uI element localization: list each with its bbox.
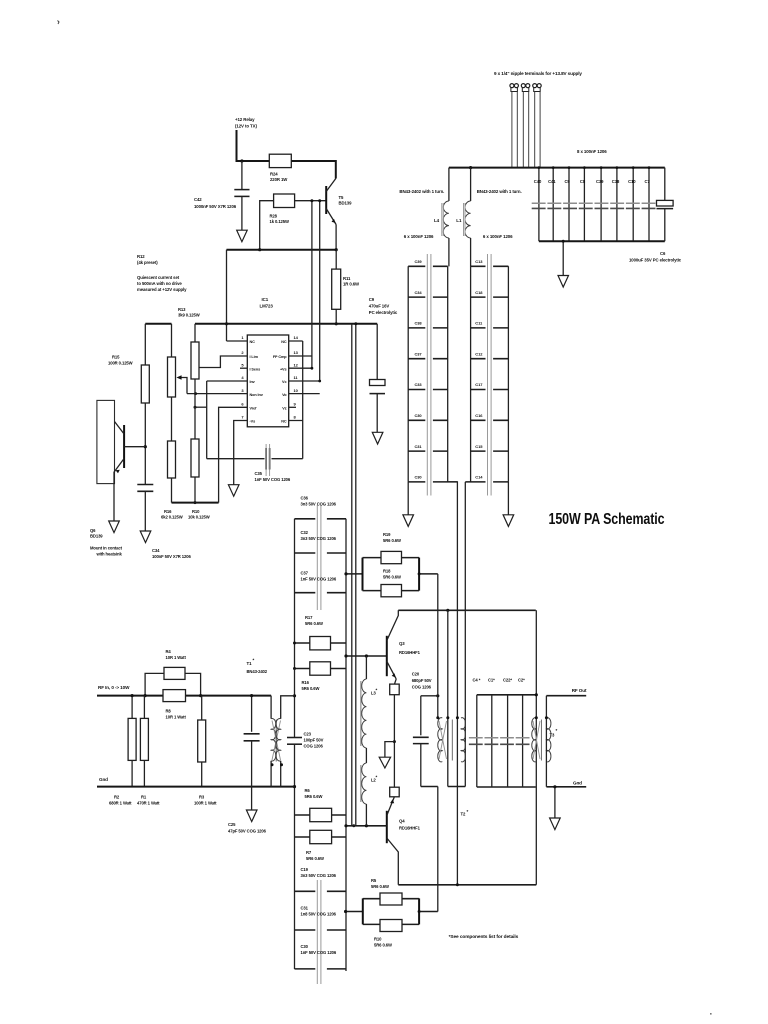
svg-text:C38: C38 bbox=[415, 321, 423, 326]
node R4 right bbox=[199, 694, 202, 697]
wire +12 input bbox=[237, 130, 270, 161]
svg-text:RF Out: RF Out bbox=[572, 688, 587, 693]
capacitor C11 bbox=[471, 321, 509, 328]
svg-text:R5: R5 bbox=[371, 878, 377, 883]
svg-text:BN43-2402: BN43-2402 bbox=[247, 669, 268, 674]
transformer T2 bbox=[436, 574, 468, 817]
svg-text:3: 3 bbox=[241, 388, 244, 393]
svg-text:Q6: Q6 bbox=[90, 528, 96, 533]
pin 14-8 link bbox=[289, 341, 303, 421]
capacitor C40 bbox=[534, 168, 542, 242]
resistor R7 bbox=[295, 830, 347, 861]
svg-text:C4 *: C4 * bbox=[473, 678, 481, 683]
stray dot bottom-right bbox=[710, 1013, 712, 1015]
svg-text:470R 1 Watt: 470R 1 Watt bbox=[137, 801, 160, 806]
capacitor C3A bbox=[408, 290, 448, 297]
resistor R16a bbox=[161, 441, 183, 520]
wire bank bottom rail bbox=[477, 786, 536, 788]
pin 3 wire bbox=[187, 393, 247, 395]
svg-text:5R6 0.6W: 5R6 0.6W bbox=[302, 686, 320, 691]
svg-text:C30: C30 bbox=[415, 413, 423, 418]
wire feedback drop to R5 loop bbox=[437, 787, 439, 912]
svg-text:6: 6 bbox=[241, 402, 244, 407]
svg-text:150W PA Schematic: 150W PA Schematic bbox=[549, 511, 665, 528]
ground C25 bbox=[246, 810, 257, 822]
capacitor C32 bbox=[295, 530, 347, 553]
svg-text:1000uF 35V PC electrolytic: 1000uF 35V PC electrolytic bbox=[629, 258, 682, 263]
svg-text:T5: T5 bbox=[339, 195, 345, 200]
transistor Q4 bbox=[387, 797, 421, 885]
node pin13-R28 bbox=[310, 199, 313, 202]
wire bank top rail bbox=[477, 694, 536, 696]
capacitor C16 bbox=[471, 413, 509, 420]
wire collector bottom bus bbox=[398, 884, 536, 886]
wire bias feed B bbox=[351, 324, 353, 826]
capacitor C14 bbox=[465, 475, 508, 482]
op-amp IC1 LM723 bbox=[247, 297, 288, 427]
svg-text:R17: R17 bbox=[305, 615, 313, 620]
resistor R16b bbox=[295, 662, 347, 691]
wire 12V bus bbox=[145, 323, 171, 325]
svg-text:680R 1 Watt: 680R 1 Watt bbox=[109, 801, 132, 806]
svg-text:5R6 0.6W: 5R6 0.6W bbox=[383, 575, 401, 580]
ladder right rail bbox=[345, 519, 347, 971]
IC1 pin labels inside bbox=[250, 340, 288, 424]
svg-text:IC1: IC1 bbox=[262, 297, 269, 302]
svg-text:C30: C30 bbox=[415, 475, 423, 480]
node C25 tap bbox=[250, 694, 253, 697]
capacitor C37 bbox=[408, 351, 448, 358]
node R11 bus bbox=[335, 322, 338, 325]
SECTION: R5/R10 parallel pair bbox=[344, 898, 419, 924]
svg-text:9 x 1/4" nipple terminals for: 9 x 1/4" nipple terminals for +13.8V sup… bbox=[494, 71, 582, 76]
svg-text:T3: T3 bbox=[550, 733, 556, 738]
svg-text:C23: C23 bbox=[304, 732, 312, 737]
svg-text:1n8 50V COG 1206: 1n8 50V COG 1206 bbox=[301, 912, 337, 917]
svg-text:10: 10 bbox=[294, 388, 299, 393]
svg-text:T1: T1 bbox=[247, 661, 253, 666]
svg-text:5R6 0.6W: 5R6 0.6W bbox=[383, 538, 401, 543]
svg-text:C19: C19 bbox=[301, 867, 309, 872]
pin 7 wire bbox=[234, 421, 248, 485]
inductor L4 bbox=[434, 168, 449, 267]
svg-text:BD139: BD139 bbox=[90, 534, 103, 539]
svg-text:NC: NC bbox=[250, 340, 256, 344]
resistor R17 bbox=[295, 615, 347, 650]
wire gnd out bbox=[546, 786, 586, 788]
svg-text:11: 11 bbox=[294, 375, 299, 380]
svg-text:R18: R18 bbox=[383, 569, 391, 574]
svg-text:5R6 0.6W: 5R6 0.6W bbox=[371, 884, 389, 889]
pin 2 wire bbox=[199, 356, 247, 368]
svg-text:R16: R16 bbox=[302, 680, 310, 685]
svg-text:Q4: Q4 bbox=[399, 819, 405, 824]
wire chain to T2 feed right bbox=[464, 482, 466, 610]
wire R28 left to emitter node bbox=[260, 201, 274, 250]
svg-text:R13: R13 bbox=[178, 307, 186, 312]
capacitor C9 electrolytic bbox=[369, 297, 398, 432]
svg-text:6 x 100nF 1206: 6 x 100nF 1206 bbox=[483, 234, 513, 239]
wire emitter rail bbox=[227, 249, 337, 251]
svg-text:470uF 16V: 470uF 16V bbox=[369, 304, 390, 309]
svg-text:Non Inv: Non Inv bbox=[250, 393, 264, 397]
ground output bbox=[550, 785, 561, 829]
potentiometer R12 bbox=[168, 324, 188, 441]
capacitor C7 bbox=[645, 168, 651, 242]
resistor R10b bbox=[363, 920, 419, 948]
resistor R4 branch bbox=[145, 649, 201, 696]
resistor R11 bbox=[332, 250, 360, 324]
svg-text:100pF 50V: 100pF 50V bbox=[304, 738, 324, 743]
capacitor C12 bbox=[471, 351, 509, 358]
capacitor C9b bbox=[565, 168, 571, 242]
resistor R2 bbox=[109, 696, 136, 806]
pin 12 stub bbox=[289, 367, 312, 369]
wire RF out bbox=[546, 695, 586, 697]
svg-text:5R6 0.6W: 5R6 0.6W bbox=[306, 856, 324, 861]
capacitor C8 bbox=[580, 168, 586, 242]
svg-text:3n3 50V COG 1206: 3n3 50V COG 1206 bbox=[301, 502, 337, 507]
capacitor C31 bbox=[295, 906, 347, 931]
svg-text:1nF 50V COG 1206: 1nF 50V COG 1206 bbox=[301, 950, 337, 955]
svg-text:*: * bbox=[253, 658, 255, 663]
terminal pair J2 bbox=[521, 84, 530, 168]
svg-text:C20: C20 bbox=[412, 672, 420, 677]
svg-text:Mount in contact: Mount in contact bbox=[90, 546, 123, 551]
svg-text:5R6 0.6W: 5R6 0.6W bbox=[374, 943, 392, 948]
svg-text:5R6 0.6W: 5R6 0.6W bbox=[305, 794, 323, 799]
bank plates bbox=[469, 737, 530, 739]
svg-text:8: 8 bbox=[294, 415, 297, 420]
resistor R18 bbox=[363, 569, 420, 597]
right chain right rail bbox=[507, 266, 509, 482]
wire R28 right to T5 base bbox=[295, 200, 327, 202]
svg-text:C12: C12 bbox=[475, 351, 483, 356]
svg-text:R12: R12 bbox=[137, 254, 145, 259]
svg-text:Vc: Vc bbox=[282, 380, 286, 384]
capacitor C2 bbox=[518, 678, 525, 788]
terminal pair J1 bbox=[510, 84, 519, 168]
capacitor C39 bbox=[408, 259, 448, 266]
svg-text:C37: C37 bbox=[415, 351, 423, 356]
svg-text:to 500mA with no drive: to 500mA with no drive bbox=[137, 281, 182, 286]
capacitor C15 bbox=[471, 444, 509, 451]
transformer T1 bbox=[247, 658, 295, 787]
svg-text:C31: C31 bbox=[415, 444, 423, 449]
cap bank plates bbox=[532, 202, 657, 204]
wire R24 to T5 collector bbox=[291, 161, 336, 179]
capacitor C19 bbox=[295, 867, 347, 891]
svg-text:3k9 0.125W: 3k9 0.125W bbox=[178, 313, 200, 318]
svg-text:with heatsink: with heatsink bbox=[96, 552, 123, 557]
wire bottom rail bbox=[539, 240, 665, 242]
svg-text:C34: C34 bbox=[415, 290, 423, 295]
wire Q4 base line bbox=[346, 825, 387, 827]
svg-text:C1*: C1* bbox=[488, 678, 495, 683]
svg-text:10R 1 Watt: 10R 1 Watt bbox=[166, 715, 187, 720]
svg-text:Vref: Vref bbox=[250, 407, 258, 411]
svg-text:2: 2 bbox=[241, 350, 244, 355]
ferrite bead Q3 emitter bbox=[390, 679, 400, 787]
svg-text:1k 0.125W: 1k 0.125W bbox=[270, 219, 290, 224]
capacitor C25 bbox=[228, 696, 267, 834]
svg-text:R24: R24 bbox=[270, 172, 278, 177]
capacitor C18 bbox=[471, 290, 509, 297]
ladder left rail upper bbox=[294, 519, 296, 669]
wire chain to T2 feed left bbox=[448, 482, 458, 610]
svg-text:C39: C39 bbox=[596, 179, 604, 184]
ground supply rail bbox=[558, 240, 569, 287]
svg-text:C13: C13 bbox=[475, 259, 483, 264]
svg-text:*: * bbox=[376, 688, 378, 693]
svg-text:Gnd: Gnd bbox=[573, 781, 582, 786]
transistor Q3 bbox=[387, 610, 421, 679]
svg-text:7: 7 bbox=[241, 415, 244, 420]
wire input line bbox=[97, 695, 271, 697]
svg-text:C9: C9 bbox=[565, 179, 571, 184]
svg-text:T2: T2 bbox=[461, 812, 467, 817]
capacitor C13 bbox=[471, 259, 509, 266]
svg-text:Quiescent current set: Quiescent current set bbox=[137, 275, 180, 280]
ground pin7 bbox=[228, 485, 239, 497]
transistor Q6 thermal bbox=[90, 400, 145, 556]
svg-text:LM723: LM723 bbox=[260, 304, 274, 309]
svg-text:*: * bbox=[467, 809, 469, 814]
wire loop right up to bus bbox=[419, 911, 438, 913]
resistor R15 bbox=[108, 324, 149, 485]
svg-text:R15: R15 bbox=[112, 355, 120, 360]
svg-text:BD139: BD139 bbox=[339, 201, 353, 206]
svg-text:10R 1 Watt: 10R 1 Watt bbox=[166, 655, 187, 660]
pin 4 wire bbox=[207, 380, 248, 382]
capacitor C36 bbox=[295, 496, 347, 519]
svg-text:C10: C10 bbox=[628, 179, 636, 184]
svg-text:R6: R6 bbox=[305, 788, 311, 793]
wire loop right to T2 bbox=[419, 573, 438, 575]
inductor L1 bbox=[456, 168, 470, 267]
svg-text:8 x 100nF 1206: 8 x 100nF 1206 bbox=[577, 149, 607, 154]
svg-text:680pF 50V: 680pF 50V bbox=[412, 678, 432, 683]
ground Q6 bbox=[109, 521, 120, 533]
capacitor C1 bbox=[488, 678, 495, 788]
capacitor C6 electrolytic bbox=[629, 168, 682, 263]
svg-text:1nF 50V COG 1206: 1nF 50V COG 1206 bbox=[255, 477, 291, 482]
node R2 top bbox=[131, 694, 134, 697]
svg-text:COG 1206: COG 1206 bbox=[412, 685, 432, 690]
wire loop left bbox=[346, 573, 363, 575]
svg-text:R8: R8 bbox=[166, 709, 172, 714]
wire loop left lower bbox=[346, 911, 363, 913]
ferrite bead Q4 emitter bbox=[390, 787, 400, 797]
bus junction dots bbox=[538, 166, 541, 169]
left chain left rail bbox=[407, 266, 409, 482]
ground C9 bbox=[372, 432, 383, 444]
capacitor C37 bbox=[295, 571, 347, 593]
capacitor C31b bbox=[408, 444, 448, 451]
wire +13.8V bus bbox=[449, 167, 665, 169]
svg-text:C18: C18 bbox=[475, 290, 483, 295]
svg-text:100nF 50V X7R 1206: 100nF 50V X7R 1206 bbox=[152, 554, 191, 559]
svg-text:FP Cmp: FP Cmp bbox=[273, 355, 287, 359]
resistor R1 bbox=[137, 696, 160, 806]
svg-text:NC: NC bbox=[281, 420, 287, 424]
inductor L3 bbox=[361, 656, 378, 763]
ladder plates lower bbox=[316, 880, 318, 984]
ground C42 bbox=[237, 230, 248, 242]
svg-text:3n3 50V COG 1206: 3n3 50V COG 1206 bbox=[301, 536, 337, 541]
svg-text:BN43-2402 with 1 turn.: BN43-2402 with 1 turn. bbox=[477, 189, 522, 194]
capacitor C30b bbox=[408, 475, 457, 482]
wire Vref bus bbox=[172, 502, 219, 504]
node R10 bus bbox=[194, 501, 197, 504]
svg-text:C40: C40 bbox=[534, 179, 542, 184]
wire bias feed A bbox=[355, 324, 357, 826]
svg-text:6k2 0.125W: 6k2 0.125W bbox=[161, 515, 183, 520]
svg-text:C8: C8 bbox=[580, 179, 586, 184]
svg-text:3n3 50V COG 1206: 3n3 50V COG 1206 bbox=[301, 873, 337, 878]
svg-text:C14: C14 bbox=[475, 475, 483, 480]
svg-text:RF In, 0 -> 10W: RF In, 0 -> 10W bbox=[98, 685, 130, 690]
svg-text:14: 14 bbox=[294, 335, 299, 340]
terminal pair J3 bbox=[533, 84, 542, 168]
svg-text:1000nF 50V X7R 1206: 1000nF 50V X7R 1206 bbox=[194, 204, 237, 209]
node pin3-R13 bbox=[194, 392, 197, 395]
ground left chain bbox=[403, 482, 414, 527]
svg-text:10k 0.125W: 10k 0.125W bbox=[188, 515, 210, 520]
capacitor C35 in lower loop bbox=[207, 444, 303, 482]
capacitor C30 bbox=[295, 944, 347, 969]
capacitor C34 bbox=[137, 485, 191, 560]
pin 11 wire up bbox=[289, 201, 320, 381]
svg-text:C16: C16 bbox=[475, 413, 483, 418]
capacitor C3C bbox=[408, 413, 448, 420]
svg-text:C31: C31 bbox=[301, 906, 309, 911]
svg-text:+Vs: +Vs bbox=[280, 367, 287, 371]
SECTION: R19/R18 parallel pair bbox=[344, 558, 419, 591]
capacitor C39b bbox=[596, 168, 604, 242]
wire collector top rail bbox=[398, 609, 536, 611]
svg-text:13: 13 bbox=[294, 350, 299, 355]
svg-text:C11: C11 bbox=[475, 321, 483, 326]
ground emitters bbox=[379, 742, 394, 768]
svg-text:(12V to TX): (12V to TX) bbox=[235, 124, 257, 129]
wire T2 bottom rail bbox=[421, 786, 466, 788]
left chain right rail bbox=[447, 266, 449, 482]
capacitor C42 bbox=[194, 161, 250, 230]
svg-text:Q3: Q3 bbox=[399, 641, 405, 646]
svg-text:R2: R2 bbox=[114, 795, 120, 800]
node chain feed on top rail bbox=[446, 609, 449, 612]
svg-text:9: 9 bbox=[294, 402, 297, 407]
resistor R19 bbox=[363, 532, 420, 564]
svg-text:C30: C30 bbox=[301, 944, 309, 949]
node gnd rail tap bbox=[293, 785, 296, 788]
svg-text:R10: R10 bbox=[192, 509, 200, 514]
svg-text:220R 1W: 220R 1W bbox=[270, 177, 288, 182]
svg-text:C25: C25 bbox=[228, 822, 236, 827]
svg-text:RD16HHF1: RD16HHF1 bbox=[399, 650, 421, 655]
svg-text:Vz: Vz bbox=[282, 407, 286, 411]
svg-text:-Vs: -Vs bbox=[250, 420, 256, 424]
svg-text:C41: C41 bbox=[548, 179, 556, 184]
ground right chain bbox=[503, 482, 514, 527]
pin 1 wire bbox=[227, 340, 248, 342]
svg-text:*: * bbox=[556, 728, 558, 733]
svg-text:100R 0.125W: 100R 0.125W bbox=[108, 361, 133, 366]
svg-text:L1: L1 bbox=[456, 218, 462, 223]
pin 5 stub bbox=[240, 367, 247, 369]
inductor L2 bbox=[361, 763, 378, 826]
svg-text:1R 0.6W: 1R 0.6W bbox=[343, 282, 360, 287]
svg-text:C2*: C2* bbox=[518, 678, 525, 683]
svg-text:BN43-2402 with 1 turn.: BN43-2402 with 1 turn. bbox=[399, 189, 444, 194]
pin 6 wire bbox=[219, 407, 248, 502]
node T1 tap bbox=[293, 694, 296, 697]
transistor T5 bbox=[326, 179, 352, 250]
capacitor C38 bbox=[408, 321, 448, 328]
svg-text:C17: C17 bbox=[475, 382, 483, 387]
resistor R8 bbox=[163, 690, 186, 720]
svg-text:12: 12 bbox=[294, 362, 299, 367]
svg-text:R7: R7 bbox=[306, 850, 312, 855]
capacitor C41 bbox=[548, 168, 556, 242]
svg-text:R19: R19 bbox=[383, 532, 391, 537]
svg-text:C7: C7 bbox=[645, 179, 651, 184]
svg-text:C36: C36 bbox=[301, 496, 309, 501]
wire ground line bbox=[97, 786, 295, 788]
wire T2 rail drops to bus bbox=[456, 787, 458, 885]
svg-text:R11: R11 bbox=[343, 276, 351, 281]
resistor R13 bbox=[191, 324, 199, 439]
svg-text:measured at +12V supply: measured at +12V supply bbox=[137, 287, 187, 292]
capacitor C33 bbox=[408, 382, 448, 389]
svg-text:I Lim: I Lim bbox=[250, 355, 259, 359]
svg-text:*See components list for detai: *See components list for details bbox=[449, 934, 519, 940]
resistor R6 bbox=[295, 788, 347, 822]
right chain left rail bbox=[470, 266, 472, 482]
svg-text:100R 1 Watt: 100R 1 Watt bbox=[194, 801, 217, 806]
svg-text:C15: C15 bbox=[475, 444, 483, 449]
svg-text:COG 1206: COG 1206 bbox=[304, 744, 324, 749]
capacitor C17 bbox=[471, 382, 509, 389]
resistor R28 bbox=[270, 194, 295, 224]
svg-text:6 x 100nF 1206: 6 x 100nF 1206 bbox=[404, 234, 434, 239]
resistor R24 bbox=[269, 154, 291, 182]
capacitor C38b bbox=[612, 168, 620, 242]
svg-text:5: 5 bbox=[241, 362, 244, 367]
svg-text:Gnd: Gnd bbox=[99, 777, 108, 782]
pin 13 wire up bbox=[289, 201, 312, 369]
svg-text:L4: L4 bbox=[434, 218, 440, 223]
resistor R5 bbox=[363, 878, 419, 905]
wire left rail to T1 bbox=[294, 669, 296, 738]
capacitor C23 bbox=[287, 732, 324, 970]
svg-text:C35: C35 bbox=[255, 471, 263, 476]
svg-text:R3: R3 bbox=[199, 795, 205, 800]
capacitor C20 bbox=[412, 672, 438, 787]
svg-text:+12 Relay: +12 Relay bbox=[235, 117, 255, 122]
wire down to pin1 bbox=[226, 250, 228, 341]
svg-text:R28: R28 bbox=[270, 214, 278, 219]
svg-text:I Sens: I Sens bbox=[250, 367, 261, 371]
stray mark top-left bbox=[58, 21, 60, 25]
pin 9 stub bbox=[289, 406, 296, 408]
svg-text:C9: C9 bbox=[369, 297, 375, 302]
svg-text:1: 1 bbox=[241, 335, 244, 340]
svg-text:PC electrolytic: PC electrolytic bbox=[369, 310, 398, 315]
wire Q3 base line bbox=[346, 655, 387, 657]
svg-text:4: 4 bbox=[241, 375, 244, 380]
